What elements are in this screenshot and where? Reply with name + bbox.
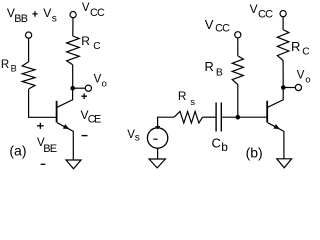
- svg-text:R: R: [81, 34, 90, 48]
- svg-text:C: C: [302, 47, 309, 58]
- svg-text:V: V: [82, 2, 90, 14]
- node VCC terminal over RB (b): [235, 32, 241, 38]
- emitter arrow (a): [63, 124, 69, 129]
- wire emitter diagonal (a): [57, 123, 73, 160]
- node Vo terminal circle (b): [295, 84, 301, 90]
- svg-text:B: B: [216, 67, 223, 78]
- resistor RB (b): [232, 56, 243, 85]
- svg-text:o: o: [102, 78, 107, 89]
- wire VCC to RC (b): [282, 17, 284, 30]
- junction dot at Vo node (b): [281, 85, 286, 90]
- capacitor Cb left plate: [215, 103, 217, 132]
- node VCC terminal (a): [70, 12, 76, 18]
- wire RB to junction (b): [237, 85, 239, 116]
- junction dot at Vo node (a): [70, 86, 75, 91]
- resistor RC (a): [67, 36, 80, 65]
- label minus below VBE (a): [41, 163, 46, 165]
- resistor RC (b): [277, 30, 289, 61]
- wire Vs top to Rs (b): [158, 117, 175, 128]
- svg-text:CC: CC: [215, 23, 230, 35]
- wire Vs bottom to ground (b): [157, 148, 159, 159]
- svg-text:CC: CC: [90, 7, 105, 19]
- svg-text:b: b: [221, 140, 228, 154]
- node Vs source circle (b): [147, 128, 167, 148]
- ground (b): [277, 159, 292, 168]
- wire Vo node to terminal (b): [283, 87, 295, 89]
- wire terminal to RB (a): [28, 38, 30, 62]
- svg-text:(b): (b): [246, 144, 263, 160]
- svg-text:C: C: [212, 136, 221, 151]
- node VBB+Vs terminal (a): [26, 32, 32, 38]
- wire collector diagonal (a): [57, 88, 73, 107]
- svg-text:BE: BE: [43, 143, 57, 155]
- label minus VCE (a): [82, 135, 88, 137]
- capacitor Cb right plate: [220, 103, 222, 132]
- wire VCC to RB (b): [237, 38, 239, 56]
- wire VCC terminal to RC (a): [72, 18, 74, 36]
- svg-text:R: R: [291, 39, 300, 54]
- svg-text:(a): (a): [9, 142, 26, 158]
- svg-text:s: s: [190, 97, 195, 108]
- svg-text:V: V: [250, 2, 258, 16]
- svg-text:V: V: [297, 69, 305, 81]
- label plus inside Vs source (b): [155, 124, 160, 129]
- svg-text:R: R: [1, 59, 9, 71]
- svg-text:CC: CC: [258, 9, 273, 21]
- node VCC terminal over RC (b): [280, 11, 286, 17]
- label plus at base (a): [37, 123, 44, 129]
- wire Rs to capacitor (b): [203, 116, 217, 118]
- transistor Q (b) base bar: [266, 101, 268, 123]
- svg-text:R: R: [178, 89, 187, 103]
- wire RC to Vo node (b): [282, 61, 284, 88]
- junction dot at base junction (b): [236, 115, 241, 120]
- node Vo terminal circle (a): [85, 85, 91, 91]
- svg-text:CE: CE: [88, 114, 101, 126]
- ground (a): [66, 160, 81, 169]
- svg-text:R: R: [205, 59, 214, 74]
- svg-text:V: V: [205, 17, 214, 32]
- label minus inside Vs source (b): [153, 138, 157, 140]
- svg-text:BB: BB: [14, 13, 27, 25]
- svg-text:o: o: [305, 74, 310, 85]
- wire emitter diagonal (b): [268, 123, 284, 159]
- svg-text:s: s: [135, 132, 140, 143]
- svg-text:C: C: [93, 41, 100, 52]
- svg-text:V: V: [94, 73, 102, 85]
- resistor RB (a): [22, 62, 35, 89]
- wire Vo node to terminal (a): [73, 87, 86, 89]
- label plus VCE (a): [81, 93, 87, 99]
- svg-text:B: B: [11, 64, 17, 74]
- svg-text:V: V: [43, 6, 51, 20]
- resistor Rs (b): [174, 111, 202, 123]
- ground under Vs (b): [149, 159, 165, 168]
- transistor Q (a) base bar: [56, 101, 58, 123]
- wire capacitor to base (b): [221, 116, 266, 118]
- wire collector diagonal (b): [268, 88, 284, 108]
- svg-text:s: s: [52, 13, 57, 24]
- wire RB to base corner (a): [29, 89, 57, 117]
- emitter arrow (b): [274, 124, 280, 129]
- wire RC to Vo node (a): [72, 65, 74, 88]
